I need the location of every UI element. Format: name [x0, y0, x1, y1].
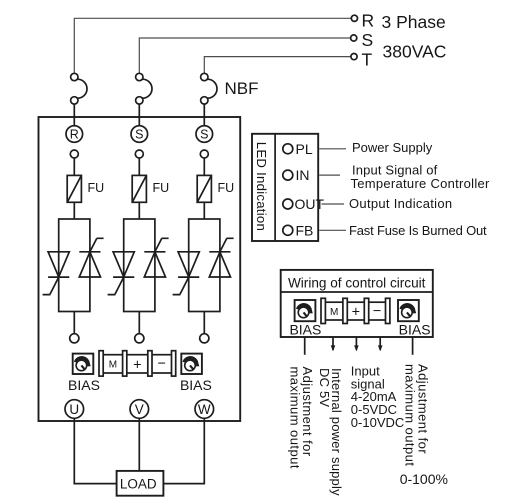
svg-text:+: + [133, 357, 141, 373]
terminal strip (M + -) inside box [99, 351, 176, 376]
label BIAS right (inside box) [180, 377, 212, 393]
wire from + down with arrow [354, 337, 359, 351]
thyristor module 2 (antiparallel SCR pair) [108, 219, 169, 312]
label Internal power supply DC 5V (vertical) [317, 368, 344, 496]
svg-text:M: M [109, 360, 117, 371]
label Adjustment for maximum output (right, vertical) [403, 364, 431, 466]
wire W to load [163, 418, 204, 483]
lead line FB [319, 229, 346, 231]
svg-text:Input Signal of: Input Signal of [352, 162, 438, 177]
label Adjustment for maximum output (left, vertical) [287, 367, 315, 469]
svg-text:T: T [362, 50, 373, 70]
output terminal V [130, 400, 149, 419]
wire from left BIAS down [304, 337, 306, 354]
node circle below S3 [200, 150, 208, 158]
wire fuse to thyristor module 3 [203, 202, 205, 219]
output node circle 3 [200, 334, 209, 343]
svg-text:maximum output: maximum output [287, 367, 302, 469]
breaker NBF pole 1 [71, 73, 87, 104]
output terminal W [195, 400, 214, 419]
label Input Signal of Temperature Controller [351, 162, 490, 191]
thyristor module 1 (antiparallel SCR pair) [43, 219, 104, 312]
svg-text:FU: FU [218, 181, 235, 195]
svg-text:LED Indication: LED Indication [254, 142, 269, 231]
label Input signal 4-20mA 0-5VDC 0-10VDC [351, 363, 404, 430]
input terminal circle R [66, 126, 83, 143]
main unit enclosure box [39, 117, 241, 421]
breaker NBF pole 3 [201, 73, 217, 104]
output terminal U [65, 400, 84, 419]
svg-text:FU: FU [88, 181, 105, 195]
label NBF [225, 79, 259, 98]
svg-text:−: − [373, 304, 381, 320]
svg-text:S: S [362, 30, 374, 50]
fuse FU column 1 [67, 175, 104, 202]
wire V to load [138, 418, 140, 471]
svg-text:BIAS: BIAS [68, 377, 100, 393]
lead line PL [319, 148, 346, 150]
control terminal strip (M + -) [321, 298, 390, 323]
svg-text:0-10VDC: 0-10VDC [351, 415, 404, 430]
LED IN [283, 167, 310, 183]
LED OUT [283, 196, 325, 212]
wire R phase feed [74, 18, 351, 73]
wire breaker1 to input R [73, 104, 75, 126]
wire fuse to thyristor module 1 [73, 202, 75, 219]
svg-text:PL: PL [296, 141, 313, 157]
label BIAS left (inside box) [68, 377, 100, 393]
svg-text:0-100%: 0-100% [400, 471, 448, 487]
svg-text:R: R [70, 128, 79, 142]
svg-text:Fast Fuse Is Burned Out: Fast Fuse Is Burned Out [349, 223, 487, 238]
thyristor module 3 (antiparallel SCR pair) [173, 219, 234, 312]
fuse FU column 3 [197, 175, 234, 202]
output node circle 1 [70, 334, 79, 343]
input terminal circle S (column 2) [131, 126, 148, 143]
svg-text:LOAD: LOAD [120, 476, 157, 491]
svg-text:3 Phase: 3 Phase [382, 12, 446, 32]
svg-text:380VAC: 380VAC [383, 42, 447, 62]
title Wiring of control circuit [288, 276, 426, 291]
svg-text:Wiring of control circuit: Wiring of control circuit [288, 276, 426, 291]
label Output Indication [349, 196, 452, 211]
label LED Indication (vertical) [254, 142, 269, 231]
wire from M down with arrow [331, 337, 336, 351]
wire U to load [74, 418, 116, 483]
svg-text:W: W [198, 402, 211, 417]
svg-text:V: V [135, 402, 144, 417]
node circle below R [70, 150, 78, 158]
wire node to fuse 1 [73, 158, 75, 175]
LED FB [283, 222, 314, 238]
label BIAS left (control) [289, 322, 321, 338]
wire S phase feed [139, 38, 350, 73]
wire module 3 to output node [203, 312, 205, 334]
potentiometer BIAS right (inside box) [181, 354, 202, 374]
label 3 Phase [382, 12, 446, 32]
lead line OUT [322, 203, 345, 205]
svg-text:OUT: OUT [295, 196, 325, 212]
wire node to fuse 3 [203, 158, 205, 175]
output node circle 2 [135, 334, 144, 343]
svg-text:BIAS: BIAS [289, 322, 321, 338]
label BIAS right (control) [399, 322, 431, 338]
label 0-100% [400, 471, 448, 487]
svg-text:Temperature Controller: Temperature Controller [351, 176, 490, 191]
label Fast Fuse Is Burned Out [349, 223, 487, 238]
wire module 1 to output node [73, 312, 75, 334]
load box [117, 471, 164, 496]
wire breaker3 to input S [203, 104, 205, 126]
label Power Supply [352, 140, 433, 155]
svg-text:BIAS: BIAS [399, 322, 431, 338]
svg-text:BIAS: BIAS [180, 377, 212, 393]
svg-text:+: + [352, 305, 360, 321]
svg-text:R: R [362, 11, 375, 31]
input terminal circle S (column 3) [196, 126, 213, 143]
fuse FU column 2 [132, 175, 169, 202]
svg-text:NBF: NBF [225, 79, 259, 98]
svg-text:S: S [200, 128, 208, 142]
node circle below S2 [135, 150, 143, 158]
svg-text:IN: IN [296, 167, 310, 183]
svg-text:−: − [157, 356, 165, 372]
potentiometer BIAS left (inside box) [73, 354, 94, 374]
breaker NBF pole 2 [136, 73, 152, 104]
wire T phase feed [204, 57, 350, 74]
svg-text:FU: FU [153, 181, 170, 195]
terminal T [351, 50, 373, 70]
svg-text:Power Supply: Power Supply [352, 140, 433, 155]
control circuit box [281, 270, 433, 337]
potentiometer BIAS left (control) [295, 300, 316, 321]
wire fuse to thyristor module 2 [138, 202, 140, 219]
terminal R [351, 11, 374, 31]
svg-text:S: S [135, 128, 143, 142]
LED indication box [252, 134, 318, 241]
wire breaker2 to input S [138, 104, 140, 126]
label 380VAC [383, 42, 447, 62]
wire node to fuse 2 [138, 158, 140, 175]
svg-text:maximum output: maximum output [403, 364, 418, 466]
svg-text:U: U [69, 402, 79, 417]
wire from right BIAS down [412, 337, 414, 354]
wire module 2 to output node [138, 312, 140, 334]
svg-text:DC 5V: DC 5V [317, 368, 332, 407]
svg-text:M: M [330, 307, 338, 318]
wire from - down with arrow [378, 337, 383, 351]
lead line IN [319, 174, 340, 176]
svg-text:FB: FB [296, 222, 314, 238]
LED PL [283, 141, 313, 157]
potentiometer BIAS right (control) [398, 300, 419, 321]
terminal S [351, 30, 374, 50]
svg-text:Output Indication: Output Indication [349, 196, 452, 211]
